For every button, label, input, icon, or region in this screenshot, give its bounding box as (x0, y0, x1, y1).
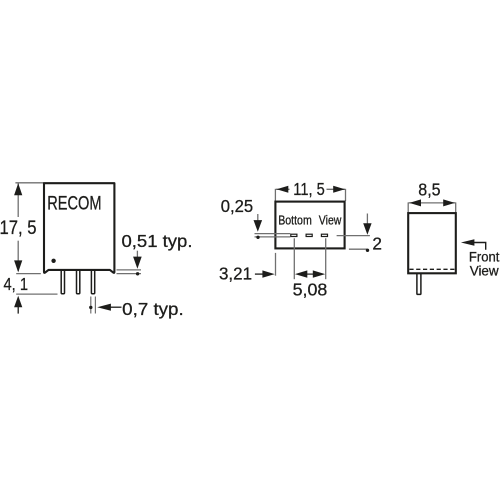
svg-text:4, 1: 4, 1 (4, 274, 29, 294)
svg-text:View: View (470, 263, 499, 278)
svg-text:5,08: 5,08 (293, 279, 328, 299)
svg-text:RECOM: RECOM (47, 193, 101, 215)
svg-text:View: View (319, 212, 342, 227)
svg-text:0,51 typ.: 0,51 typ. (122, 231, 193, 251)
svg-text:8,5: 8,5 (418, 180, 440, 200)
svg-text:17, 5: 17, 5 (0, 218, 37, 239)
svg-text:3,21: 3,21 (219, 263, 252, 283)
svg-text:0,7 typ.: 0,7 typ. (122, 299, 184, 319)
svg-text:2: 2 (372, 234, 382, 254)
svg-text:0,25: 0,25 (221, 196, 253, 216)
svg-text:Bottom: Bottom (278, 212, 312, 227)
svg-text:11, 5: 11, 5 (293, 179, 324, 199)
